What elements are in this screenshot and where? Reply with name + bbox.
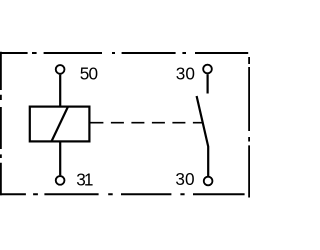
svg-text:30: 30 xyxy=(175,169,194,189)
svg-text:50: 50 xyxy=(80,64,98,84)
svg-text:30: 30 xyxy=(176,64,195,84)
svg-text:31: 31 xyxy=(76,170,93,190)
